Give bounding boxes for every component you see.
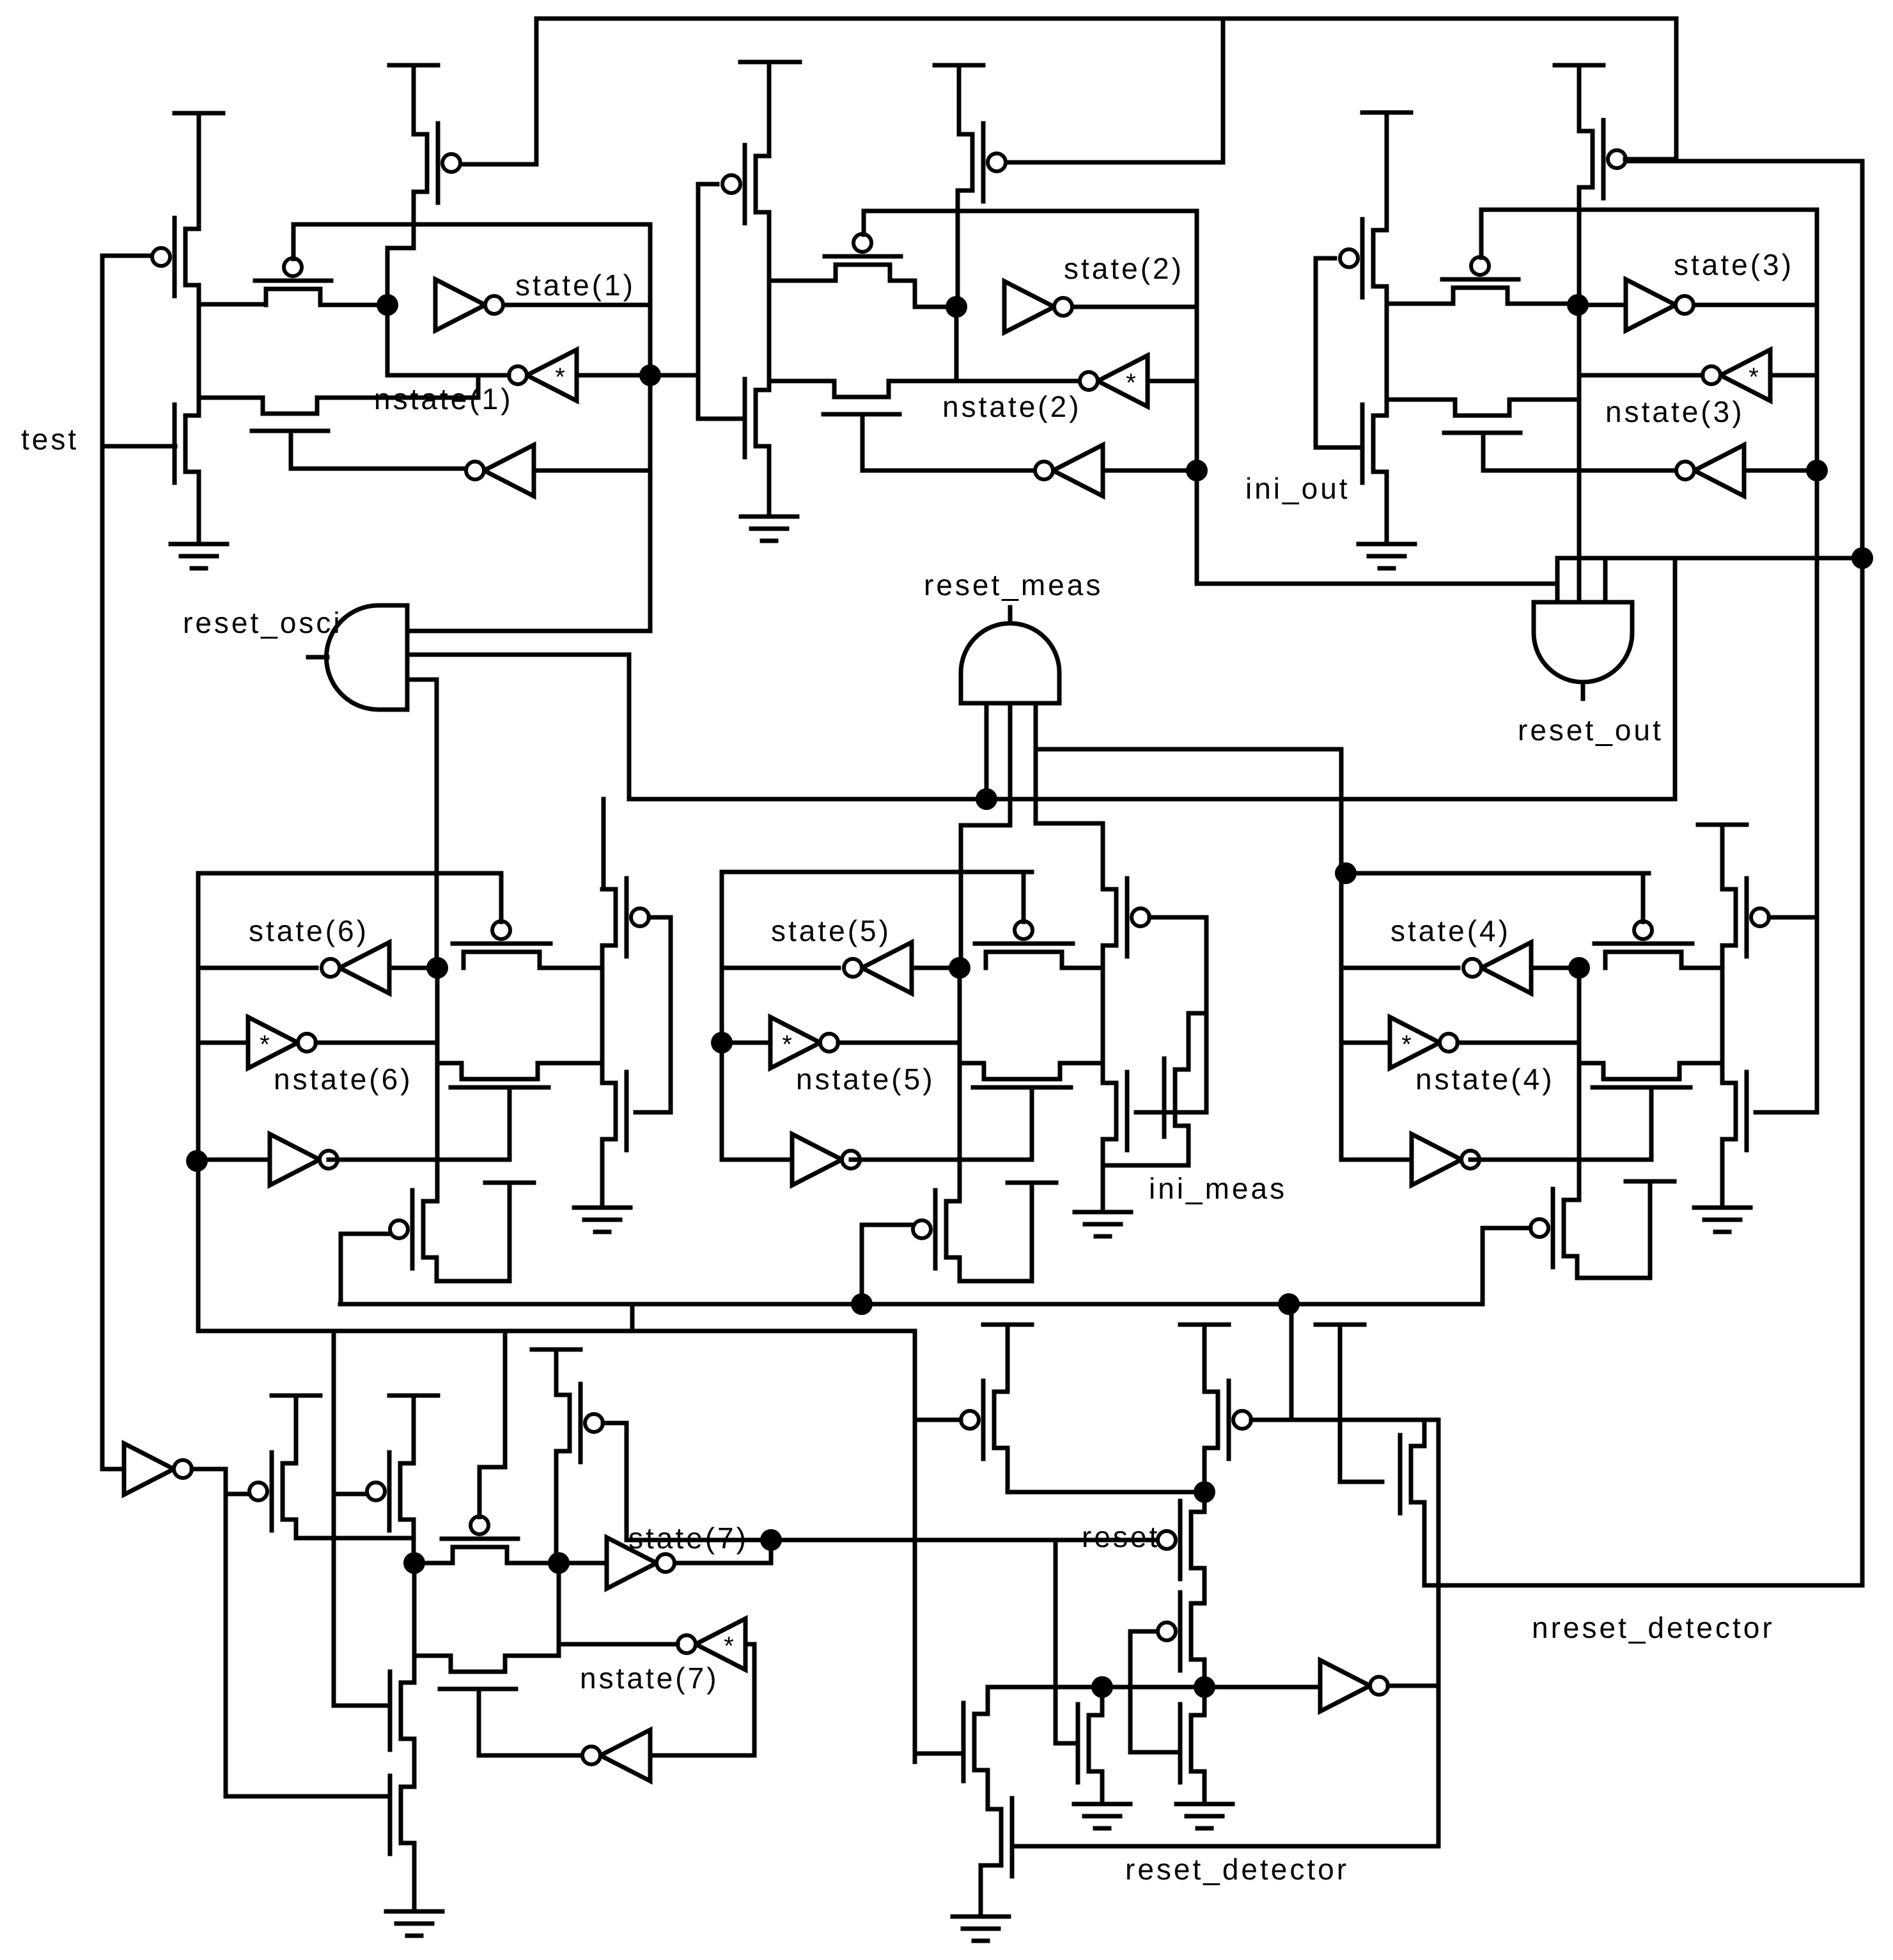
wire pull6 gate: [341, 1232, 390, 1236]
wire nstate7 vertical: [752, 1644, 757, 1755]
wire nb gate: [226, 1794, 388, 1799]
wire state7 vertical: [557, 1563, 561, 1656]
inverter keeper cell6: [248, 1017, 316, 1068]
transistor pmos PR: [1204, 1381, 1251, 1459]
wire railA down riser: [1289, 1304, 1294, 1420]
wire cell5 stack ngate: [1136, 1110, 1206, 1115]
ground ini_out stack: [1359, 544, 1415, 568]
wire pass pmos cell2 drain: [890, 281, 956, 307]
wire inv3 cell6 out: [329, 1158, 510, 1162]
wire cell4 stack pgate: [1769, 915, 1817, 920]
transistor pullup pmos cell1: [414, 123, 460, 203]
wire PL stem: [1006, 1325, 1010, 1392]
wire reset_out stub: [1581, 682, 1585, 699]
ground cell6 stack: [574, 1208, 630, 1232]
svg-text:test: test: [21, 423, 79, 456]
wire state2 out: [1074, 305, 1197, 309]
transistor pass pmos cell2: [825, 234, 901, 281]
ground N1: [1176, 1804, 1233, 1828]
wire PR gate: [1251, 1418, 1438, 1422]
node N0 top: [1091, 1676, 1113, 1698]
wire pull4 gate riser: [1481, 1228, 1485, 1304]
wire pass nmos cell7 gate: [479, 1689, 582, 1755]
wire M1 gate: [1155, 1538, 1156, 1543]
wire keeper4 in: [1341, 1041, 1390, 1045]
wire NL1 gate: [915, 1752, 963, 1756]
transistor pmos cell6 stack: [602, 878, 649, 956]
wire pmosA stem: [294, 1396, 299, 1463]
wire state6 feedback: [435, 968, 440, 1043]
transistor P1 pmos cell1 stack: [152, 218, 199, 296]
wire cell6 stack ngate: [635, 1110, 671, 1115]
wire inv3 cell2 in: [1103, 469, 1197, 473]
node nstate1: [639, 364, 661, 386]
inverter nreset_detector: [1320, 1660, 1388, 1711]
node reset det mid: [1194, 1676, 1215, 1698]
wire M1-M2 link: [1203, 1568, 1207, 1603]
power VDD cell5 pull: [1008, 1181, 1056, 1185]
wire pull7 drain: [554, 1451, 559, 1563]
transistor nmos ini_meas: [1164, 1059, 1188, 1137]
wire pass pmos cell7 left: [414, 1561, 453, 1566]
node state6: [426, 957, 448, 979]
inverter test: [124, 1443, 192, 1495]
wire keeper3 out: [1579, 373, 1702, 378]
svg-text:*: *: [1401, 1031, 1412, 1059]
transistor pmos cell5 stack: [1103, 878, 1149, 956]
wire PL gate: [915, 1418, 961, 1422]
wire Nbtm gate wire reset_detector: [1012, 1844, 1438, 1849]
inverter state2: [1004, 281, 1072, 332]
wire pass pmos cell3 drain: [1507, 302, 1577, 306]
svg-text:nstate(7): nstate(7): [580, 1661, 719, 1695]
wire state4 out: [1341, 966, 1458, 970]
svg-text:*: *: [1126, 369, 1136, 397]
wire pull5 gate riser: [860, 1225, 864, 1304]
node state7 wire: [760, 1529, 782, 1551]
svg-text:state(1): state(1): [515, 268, 635, 302]
wire pass nmos cell6 gate: [508, 1087, 512, 1160]
node reset top: [1194, 1481, 1215, 1503]
wire test to inv: [102, 1467, 124, 1472]
inverter fb cell6: [270, 1134, 338, 1185]
wire cell6 stack top riser: [602, 799, 606, 889]
svg-text:nstate(3): nstate(3): [1605, 395, 1745, 428]
wire pass pmos cell6 gate riser: [499, 873, 504, 922]
gate AND reset_meas: [961, 623, 1059, 703]
wire PR stem: [1203, 1325, 1207, 1392]
wire cell3 stack to passP: [1387, 302, 1453, 306]
ground N0: [1074, 1804, 1130, 1828]
wire nstate1 rail: [293, 222, 650, 227]
wire pass7 gate rail riser: [503, 1331, 508, 1467]
node state5: [949, 957, 970, 979]
inverter state5: [844, 942, 912, 993]
wire state2 feedback: [954, 307, 959, 381]
wire invtest vertical: [224, 1469, 228, 1796]
svg-text:reset_out: reset_out: [1518, 713, 1663, 747]
wire pass pmos cell1 drain: [320, 303, 387, 307]
transistor nmos A clkinv: [390, 1672, 414, 1750]
transistor pullup pmos cell2: [959, 123, 1006, 201]
wire test vertical: [100, 256, 105, 1469]
transistor pass nmos cell6: [451, 1063, 549, 1087]
transistor nmos cell5 stack: [1103, 1072, 1127, 1150]
gate AND reset_out: [1534, 602, 1632, 682]
wire keeper6 out: [316, 1041, 437, 1045]
wire right rail: [1860, 161, 1865, 1585]
node pull5 rail: [851, 1293, 873, 1315]
wire cell6 stack source: [600, 1139, 605, 1208]
wire invtest out: [192, 1467, 226, 1472]
wire PR drain: [1203, 1448, 1207, 1492]
wire pullup cell3 drain: [1577, 187, 1582, 305]
inverter keeper cell4: [1390, 1017, 1458, 1068]
wire pass nmos cell4 gate: [1649, 1087, 1654, 1160]
power VDD cell2 left stack: [740, 60, 800, 65]
wire N2 gate: [698, 417, 745, 421]
transistor nmos cell4 stack: [1722, 1072, 1747, 1150]
wire cell5 box rail: [722, 870, 1032, 875]
transistor pass pmos cell1: [255, 258, 331, 305]
svg-text:reset_meas: reset_meas: [924, 568, 1103, 602]
wire keeper2 in: [1148, 379, 1197, 384]
transistor nmos ini_out: [1362, 405, 1387, 483]
inverter keeper cell3: [1702, 350, 1770, 401]
svg-text:state(2): state(2): [1064, 252, 1184, 285]
wire P2 gate: [698, 182, 717, 187]
wire N0 top: [1100, 1687, 1105, 1715]
wire Nbtm source: [981, 1865, 988, 1917]
wire mid rail 1250: [629, 797, 1675, 802]
wire nstate2 vertical: [1195, 211, 1199, 584]
wire state1 feedback: [386, 305, 390, 375]
wire and osci in1: [407, 629, 650, 634]
wire ini_meas bot: [1103, 1126, 1188, 1165]
gate AND reset_osci: [327, 605, 408, 710]
wire rail reset A: [340, 1302, 1483, 1307]
transistor pmos PL: [961, 1381, 1008, 1459]
wire pull5 gate: [862, 1223, 913, 1227]
wire cell4 stack source: [1720, 1139, 1725, 1208]
ground Nbtm: [953, 1917, 1009, 1941]
wire state5 to passN: [960, 1061, 984, 1066]
wire nmosA-B link: [412, 1739, 417, 1787]
wire meas in3 to cell4: [1036, 749, 1341, 873]
ground cell2 stack: [741, 517, 797, 541]
wire pullup cell3 gate wire: [1625, 157, 1676, 162]
transistor pass nmos cell1: [252, 398, 328, 431]
wire pass nmos cell3 gate: [1483, 433, 1675, 471]
ground cell5 stack: [1075, 1212, 1131, 1236]
inverter fb cell3: [1676, 445, 1744, 496]
transistor nmos Nrr: [1400, 1435, 1424, 1513]
wire nstate3 vertical: [1815, 210, 1819, 1112]
inverter keeper cell1: [509, 350, 577, 401]
transistor pmos M2: [1158, 1592, 1204, 1670]
svg-text:nstate(1): nstate(1): [374, 382, 513, 416]
wire state4 to passN: [1579, 1061, 1603, 1066]
wire pull5 drain: [960, 1183, 1032, 1281]
ground clkinv: [386, 1911, 442, 1936]
transistor nmos B clkinv: [390, 1776, 414, 1854]
ground cell4 stack: [1694, 1208, 1750, 1232]
wire pass nmos cell1 drain: [317, 375, 478, 398]
wire vdd1 stem: [197, 113, 201, 229]
svg-text:nstate(4): nstate(4): [1415, 1062, 1555, 1096]
svg-text:state(4): state(4): [1391, 914, 1511, 947]
wire state7 out: [676, 1540, 771, 1563]
wire pull4 drain: [1577, 1181, 1650, 1278]
wire Nrr bottom: [1422, 1502, 1427, 1585]
inverter fb cell5: [792, 1134, 860, 1185]
transistor P2 pmos cell2 stack: [722, 145, 769, 223]
wire N0 source: [1100, 1771, 1105, 1804]
wire pullup cell1 drain: [387, 192, 414, 305]
wire cell5 stack pgate: [1149, 915, 1206, 920]
wire pull7 gate: [603, 1421, 627, 1426]
power VDD P-R: [1180, 1323, 1229, 1327]
wire cell1 top pmos gate riser: [460, 19, 536, 164]
wire state6 to passN: [437, 1061, 462, 1066]
power VDD cell7 pull: [532, 1348, 580, 1352]
transistor pass pmos cell6: [453, 921, 550, 968]
wire state5 down: [958, 1043, 962, 1063]
wire iniout source: [1385, 472, 1389, 544]
transistor pass nmos cell2: [823, 381, 900, 414]
wire rail riser 2620: [1673, 558, 1678, 799]
wire nstate5 vertical: [720, 872, 724, 1160]
transistor pass nmos cell4: [1593, 1063, 1690, 1087]
wire and osci in2: [407, 655, 629, 799]
wire inv3 cell7 in: [650, 1754, 754, 1758]
node cell7 left: [403, 1552, 425, 1574]
wire ini_meas top: [1188, 1013, 1206, 1069]
wire cell4 stack mid: [1720, 945, 1725, 1083]
transistor pass nmos cell3: [1444, 400, 1520, 433]
wire meas in1: [985, 703, 989, 799]
wire nstate6 vertical: [196, 873, 201, 1331]
wire cell5 stack gates vertical: [1204, 917, 1209, 1112]
wire cell7 pull stem: [554, 1349, 559, 1395]
wire M2 gate riser: [1130, 1631, 1176, 1752]
wire pull6 gate riser: [339, 1234, 343, 1304]
wire pass nmos cell1 gate: [291, 431, 466, 469]
wire nreset inv out: [1388, 1684, 1438, 1688]
ground cell1 stack: [171, 544, 227, 568]
wire state3 feedback: [1577, 305, 1582, 602]
wire pass cell5 to stack top: [1062, 966, 1103, 970]
power VDD P-L: [983, 1323, 1032, 1327]
power VDD Nrr: [1316, 1323, 1364, 1327]
power VDD cell2 top: [935, 63, 983, 68]
wire state4 in: [1531, 966, 1579, 970]
wire state5 out: [722, 966, 839, 970]
inverter state4: [1463, 942, 1531, 993]
wire cell1 stack to passN: [199, 396, 263, 400]
wire reset_meas stub: [1008, 607, 1013, 623]
wire vdd stem cell2 top: [957, 65, 962, 134]
wire inv3 cell4 out: [1470, 1158, 1651, 1162]
wire vdd iniout stem: [1385, 113, 1389, 230]
node state2: [946, 296, 967, 318]
wire Nrr top: [1422, 1420, 1427, 1446]
transistor pull pmos cell6: [390, 1190, 437, 1268]
wire iniout mid: [1385, 286, 1389, 416]
wire inv3 cell5 out: [851, 1158, 1032, 1162]
wire inv3 cell4 in: [1341, 1158, 1412, 1162]
transistor pass pmos cell5: [975, 921, 1073, 968]
power VDD ini_out stack: [1362, 111, 1411, 115]
transistor pass nmos cell5: [973, 1063, 1071, 1087]
wire pass nmos cell2 drain: [889, 379, 1080, 384]
inverter keeper cell5: [770, 1017, 838, 1068]
wire railB riser down: [332, 1331, 336, 1706]
wire state1 out: [505, 303, 650, 307]
transistor nmos N0: [1078, 1704, 1102, 1782]
wire keeper5 in: [722, 1041, 770, 1045]
wire pass cell6 to stack top: [540, 966, 602, 970]
power VDD cell4 pull: [1626, 1179, 1674, 1184]
svg-text:*: *: [724, 1632, 734, 1660]
wire na gate: [334, 1704, 388, 1708]
wire keeper3 in: [1770, 373, 1817, 378]
wire nstate1 to cell2 gates: [650, 373, 698, 378]
wire P1 gate: [102, 254, 150, 258]
node cell4 rail tap: [1335, 862, 1357, 884]
wire state6 in: [389, 966, 437, 970]
svg-text:*: *: [555, 363, 565, 391]
svg-text:reset_osci: reset_osci: [183, 606, 343, 639]
wire vdd2 stem: [767, 62, 772, 156]
transistor pass pmos cell4: [1594, 921, 1692, 968]
wire state3 out: [1695, 303, 1817, 307]
node nstate6 tap: [186, 1150, 208, 1172]
svg-text:state(3): state(3): [1674, 248, 1794, 281]
node state1: [377, 294, 398, 316]
wire pmosB drain: [412, 1520, 416, 1563]
transistor pull pmos cell5: [913, 1190, 960, 1268]
wire M2 gate: [1130, 1629, 1156, 1634]
node state4: [1568, 957, 1590, 979]
power VDD cell3 top: [1555, 63, 1603, 68]
inverter fb cell4: [1412, 1134, 1479, 1185]
wire cell2 stack mid: [767, 212, 772, 390]
wire N2 source: [767, 446, 772, 517]
wire pass pmos cell1 gate riser: [292, 224, 296, 259]
wire pass pmos cell4 gate riser: [1641, 873, 1646, 922]
power VDD cell4 stack: [1698, 823, 1747, 827]
wire iniout pmos gate: [1316, 256, 1335, 261]
wire state4 down: [1577, 1043, 1582, 1063]
inverter fb cell1: [466, 445, 534, 496]
wire pull4 gate: [1483, 1226, 1531, 1231]
wire state3 in: [1578, 303, 1626, 307]
svg-text:state(5): state(5): [771, 914, 891, 947]
power VDD pmosA: [272, 1394, 320, 1398]
svg-text:nreset_detector: nreset_detector: [1532, 1611, 1775, 1644]
wire rail connector: [630, 1304, 635, 1331]
svg-text:state(6): state(6): [249, 914, 369, 947]
wire state6 down: [435, 1043, 440, 1063]
transistor pull pmos cell4: [1531, 1189, 1577, 1267]
wire state7 in: [559, 1561, 607, 1566]
svg-text:*: *: [260, 1031, 270, 1059]
wire N1 source: [197, 472, 201, 544]
power VDD cell1 top: [389, 63, 438, 68]
wire pass cell6 to stack bot: [538, 1061, 602, 1066]
wire pull6 drain: [437, 1183, 510, 1281]
wire cell6 stack mid: [600, 945, 605, 1083]
wire cell1 stack mid: [197, 285, 201, 416]
svg-text:nstate(2): nstate(2): [942, 390, 1082, 423]
wire nstate2 route: [1197, 584, 1557, 602]
transistor N2 nmos cell2 stack: [745, 379, 769, 457]
wire nstate3 rail: [1481, 208, 1817, 212]
node right rail join: [1851, 547, 1873, 569]
wire cell7 left vertical: [412, 1563, 417, 1683]
wire cell4 box rail: [1341, 871, 1649, 876]
wire pmosB gate: [334, 1492, 366, 1497]
wire pass nmos cell3 drain: [1509, 398, 1579, 402]
node meas in1 rail: [976, 788, 997, 810]
wire nstate2 rail: [864, 209, 1197, 214]
wire cell2 top pmos gate riser: [1008, 19, 1223, 162]
wire pass nmos cell5 gate: [1030, 1087, 1034, 1160]
wire keeper4 out: [1458, 1041, 1579, 1045]
wire cell6 box rail: [198, 871, 501, 876]
wire cell3 gate to right rail: [1625, 159, 1862, 164]
wire Nrr gate stem: [1340, 1325, 1382, 1482]
inverter state7: [607, 1537, 674, 1589]
wire pass cell4 to stack top: [1681, 966, 1722, 970]
transistor nmos N1: [1180, 1704, 1204, 1782]
wire reset_osci stub: [308, 655, 327, 660]
transistor pmos B clkinv: [367, 1452, 414, 1530]
wire N1 gate test: [102, 444, 175, 449]
wire N1 source: [1203, 1771, 1207, 1804]
wire vdd stem cell3 top: [1577, 65, 1582, 131]
wire cell5 stack mid: [1101, 945, 1105, 1083]
power VDD cell1 left stack: [175, 111, 223, 116]
wire keeper5 out: [838, 1041, 960, 1045]
wire top reset rail: [536, 17, 1676, 21]
inverter fb cell2: [1035, 445, 1103, 496]
transistor pmos M1 state7gate: [1158, 1501, 1204, 1579]
wire state4 vertical ext: [1577, 1063, 1582, 1200]
wire vdd stem cell1 top: [412, 65, 416, 134]
power VDD cell6 pull: [485, 1181, 534, 1185]
wire nmosB source: [412, 1843, 417, 1911]
wire NL1 down: [986, 1770, 990, 1809]
wire pass nmos cell7 left: [414, 1654, 451, 1658]
wire state4 feedback: [1577, 968, 1582, 1043]
transistor N1 nmos cell1 stack: [175, 405, 199, 483]
svg-text:ini_meas: ini_meas: [1149, 1172, 1287, 1205]
wire cell2 stack to passN: [769, 379, 834, 384]
wire cell2 stack gates vertical: [696, 184, 701, 419]
wire cell2 stack to passP: [769, 279, 836, 283]
wire nstate1 vertical: [648, 224, 653, 631]
node nstate2: [1186, 460, 1208, 481]
node railA 2016: [1278, 1293, 1300, 1315]
wire pass pmos cell2 gate riser: [862, 211, 866, 235]
transistor pass pmos cell7: [442, 1516, 518, 1563]
wire NL1 top: [986, 1687, 990, 1714]
wire and osci in3: [407, 680, 437, 968]
wire reset_out input rail: [1557, 556, 1862, 561]
svg-text:ini_out: ini_out: [1245, 472, 1350, 505]
